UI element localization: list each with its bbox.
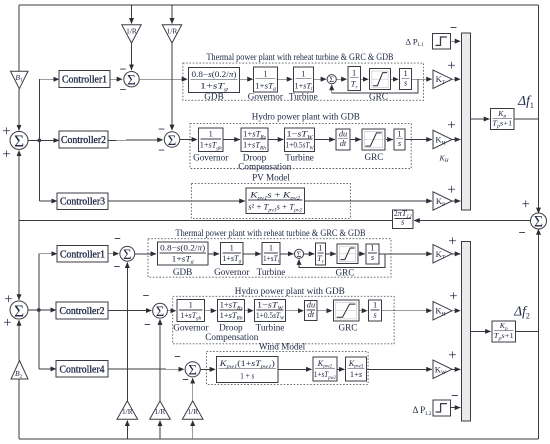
wire: bar 1 output to Kp block [471,118,490,120]
block GRC limiter thermal area 2 [337,244,358,263]
svg-text:−: − [158,143,165,157]
svg-text:+: + [2,123,10,139]
wire: tie summer output into 2piT12/s block [414,220,530,222]
wire: bar 2 output to Kp block (area 2) [471,330,491,332]
wire: tie-line up into S1 bottom [18,151,20,221]
summing junction S2 (ACE area 2) [10,301,28,319]
wire: into Controller4 [39,368,56,370]
svg-text:1: 1 [397,129,401,138]
svg-text:1: 1 [301,69,305,78]
svg-text:Compensation: Compensation [205,332,258,342]
svg-text:GRC: GRC [365,152,384,162]
wire: PV output to gain KP [305,200,432,202]
svg-text:Governor: Governor [193,153,228,163]
dashed box: Thermal power plant area 1 [183,63,424,100]
wire: B1 output into summer S1 [18,89,20,131]
svg-text:+: + [449,288,457,304]
gain KH area 1 [433,130,452,148]
wire: &#916;P L2 into bar 2 [451,407,461,409]
svg-text:Turbine: Turbine [285,153,314,163]
wire: Controller1 to thermal summer (area 2) [108,253,119,255]
svg-text:+: + [447,58,455,74]
wire: turbine to GRC summer [313,78,326,80]
wire: tie-line down into S2 top [18,221,20,300]
svg-text:du: du [339,129,347,138]
summing junction GRC loop area 1 [327,75,336,84]
block Controller3 (area 1) [57,193,108,209]
svg-text:Controller1: Controller1 [62,75,107,86]
dashed box: hydro plant area 1 [190,124,411,169]
svg-text:Σ: Σ [127,73,136,89]
gain KW [433,360,452,378]
svg-text:1: 1 [230,244,234,253]
wire: into Controller2 area 2 [39,309,56,311]
wire: S2 output to junction [28,309,39,311]
svg-text:s: s [371,253,374,262]
svg-text:+: + [4,291,12,307]
block GDB area 2 [157,242,208,265]
block PV transfer function [246,188,305,214]
svg-text:−: − [451,388,458,403]
svg-text:s: s [373,310,376,319]
wire: GDB to governor (area 2) [208,253,219,255]
wire: S1 output to junction [28,139,39,141]
droop gain 1/R (area 2 hydro), pointing up [150,401,171,419]
svg-text:Turbine: Turbine [289,91,318,101]
block GRC limiter hydro area 2 [333,300,359,321]
gain KT area 2 [433,245,452,263]
wire: GDB to governor [240,78,253,80]
outer frame: bottom feedback line (&#916;f2 to B2) [19,438,539,440]
wire: into Controller3 [39,200,57,202]
wire: 1/Tr to limiter [360,78,368,80]
wire: limiter to integrator (area 2) [358,253,365,255]
svg-text:1: 1 [189,301,193,310]
block du/dt area 2 [305,301,318,321]
svg-text:Controller2: Controller2 [61,135,106,146]
svg-text:+: + [448,347,456,363]
summing junction S1 (ACE area 1) [10,131,28,149]
wire: bottom frame into 1/R (thermal 2) [126,421,128,440]
node: ACE2 branch junction [37,308,41,312]
svg-text:+: + [522,196,530,212]
wire: right vertical &#916;f1 down into tie summer [538,5,540,213]
wire: KT into summing bar 1 [452,78,460,80]
summing junction hydro area 2 [153,303,168,318]
svg-text:Hydro power plant with GDB: Hydro power plant with GDB [235,286,345,296]
wire: droop to hydro turbine [268,139,283,141]
wire: Controller3 to PV model [108,200,245,202]
wire: KT into bar 2 [452,253,460,255]
summing junction thermal area 1 [124,72,139,87]
svg-text:GRC: GRC [336,267,355,277]
wire: Controller4 to wind summer [108,368,184,370]
block hydro turbine area 1 [285,128,315,152]
svg-text:0.8−s(0.2/π): 0.8−s(0.2/π) [192,70,237,79]
block governor area 1 thermal [254,67,278,92]
svg-text:1 + s: 1 + s [240,372,254,381]
block Controller2 (area 1) [59,131,108,148]
block Controller1 (area 2) [57,246,108,263]
gain KH area 2 [433,302,452,320]
svg-text:Governor: Governor [173,323,208,333]
svg-text:GDB: GDB [204,91,223,101]
wire: into Controller1 area 2 [39,253,57,255]
wire: summer to GDB block [140,78,188,80]
wire: droop to turbine (hydro 2) [245,310,254,312]
svg-text:Controller2: Controller2 [60,306,105,317]
wire: Controller2 to hydro summer (area 2) [108,310,151,312]
wire: integrator to gain KT (area 2) [379,253,432,255]
svg-text:−: − [144,317,151,331]
wire: integrator output to gain KT [412,78,432,80]
summing bar area 2 [462,242,471,422]
gain KP area 1 [433,192,452,210]
wire: GRC feedback loop area 1 [332,79,418,93]
wire: wind block1 to block2 [278,368,311,370]
svg-text:1: 1 [263,69,267,78]
svg-text:Compensation: Compensation [238,162,291,172]
block 1/Tr area 2 [316,243,326,265]
wire: GRC feedback loop area 2 [299,254,385,268]
wire: left edge down to B1 [18,5,20,71]
svg-text:1/R: 1/R [187,407,198,416]
wire: Controller2 to hydro summer [108,139,163,142]
svg-text:Σ: Σ [329,75,334,84]
svg-text:−: − [174,349,181,363]
wire: 1/R output into thermal summer [131,43,133,70]
svg-text:Turbine: Turbine [257,267,286,277]
wire: KP into bar 1 [452,200,460,202]
summing junction hydro area 1 [164,132,179,147]
wire: bottom frame into 1/R (wind) [192,421,194,440]
summing junction GRC loop area 2 [294,249,303,258]
wire: KH into bar 1 [452,139,460,141]
wire: governor to turbine (area 2) [243,253,261,255]
block GDB area 1 transfer function [189,68,240,93]
wire: integrator to gain KH [405,139,432,141]
wire: summer to GDB (area 2) [135,253,156,255]
block GRC limiter hydro area 1 [362,129,385,150]
block tie line 2*pi*T12/s [392,210,413,229]
block wind transfer 2 [313,357,337,381]
svg-text:1/R: 1/R [122,407,133,416]
svg-text:Σ: Σ [14,301,24,320]
wire: turbine to du/dt (hydro 2) [286,310,304,312]
block governor thermal area 2 [220,243,243,265]
wire: turbine to du/dt [315,139,335,141]
svg-text:1: 1 [373,301,377,310]
node: ACE1 branch junction [37,139,41,143]
summing junction wind [185,362,200,377]
wire: Kp output to right edge (area 2) [516,330,539,332]
block du/dt area 1 [336,129,350,150]
wire: &#916;P L1 into bar 1 [451,40,461,42]
svg-text:s: s [398,139,401,148]
svg-text:+: + [447,117,455,133]
svg-text:−: − [158,122,165,136]
svg-text:PV Model: PV Model [252,173,290,183]
block power system Kp/(Tps+1) area 1 [491,109,515,130]
svg-text:−: − [120,62,127,76]
wire: governor to droop compensation [223,139,240,141]
step load disturbance block &#916;P L1 [433,33,451,49]
svg-text:Droop: Droop [219,323,243,333]
svg-text:Governor: Governor [214,267,249,277]
wire: junction up/down to controller rows (area 1) [38,79,40,201]
svg-text:−: − [450,21,457,35]
block power system Kp/(Tps+1) area 2 [492,321,516,342]
svg-text:Hydro power plant with GDB: Hydro power plant with GDB [252,112,360,122]
svg-text:GDB: GDB [173,267,192,277]
wire: 1/R output into hydro summer [171,43,173,130]
svg-text:1: 1 [269,244,273,253]
svg-text:Thermal power plant with rehea: Thermal power plant with reheat turbine … [207,52,394,62]
wire: bottom frame up into B2 [18,379,20,439]
block hydro governor area 1 [198,128,223,152]
svg-text:1/R: 1/R [155,407,166,416]
svg-text:Σ: Σ [168,133,177,149]
wire: right vertical &#916;f2 up into tie summer [538,229,540,439]
svg-text:Thermal power plant with rehea: Thermal power plant with reheat turbine … [176,228,366,238]
wire: bottom frame into 1/R (hydro 2) [159,421,161,440]
svg-text:1: 1 [370,244,374,253]
svg-text:Σ: Σ [156,304,164,320]
wire: KH into bar 2 [452,310,460,312]
summing junction thermal area 2 [120,246,135,261]
wire: into Controller2 [39,139,59,141]
summing bar area 1 [462,33,471,210]
wire: Kp output to right edge [514,118,539,120]
block turbine area 1 thermal [294,67,314,92]
svg-text:+: + [2,146,10,162]
droop gain 1/R (area 1 thermal), pointing down [122,25,141,43]
svg-text:Σ: Σ [14,132,24,151]
droop gain 1/R (area 2 thermal), pointing up [117,401,138,419]
wire: B2 output up into S2 bottom [18,320,20,360]
wire: wind block2 to block3 [337,368,344,370]
summing junction tie-line [531,213,547,229]
svg-text:1/R: 1/R [167,26,178,35]
wire: tie line power to left edge [19,220,392,222]
block wind transfer 1 [216,356,278,382]
wire: 1/R up into thermal summer (area 2) [126,262,128,401]
svg-text:−: − [114,231,121,245]
svg-text:dt: dt [308,310,315,319]
block GRC rate limiter area 1 thermal [370,69,391,90]
svg-text:Controller3: Controller3 [60,197,105,208]
gain block B2 (frequency bias, area 2) [11,361,28,380]
wire: 1/Tr to limiter (area 2) [326,253,336,255]
wire: junction vertical (area 2) [38,254,40,369]
block turbine thermal area 2 [262,243,280,265]
wire: limiter to integrator (hydro 2) [359,310,368,312]
gain KT area 1 [433,70,452,88]
svg-text:Turbine: Turbine [256,323,285,333]
svg-text:1: 1 [209,130,213,139]
wire: KW into bar 2 [452,368,460,370]
wire: turbine to GRC summer (area 2) [280,253,294,255]
svg-text:−: − [143,288,150,302]
svg-text:s: s [401,218,404,227]
block Controller4 (area 2) [56,361,108,378]
wire: wind output to gain KW [366,368,431,370]
svg-text:1+s: 1+s [350,370,362,379]
block integrator 1/s hydro area 2 [369,300,382,321]
svg-text:−: − [182,372,189,386]
block 1/Tr area 1 [348,67,361,91]
svg-text:Controller4: Controller4 [60,365,106,376]
svg-text:GRC: GRC [369,91,388,101]
block droop compensation area 1 [241,128,268,152]
svg-text:0.8−s(0.2/π): 0.8−s(0.2/π) [160,244,205,253]
block wind transfer 3 [346,357,367,381]
wire: governor to droop (area 2) [204,310,216,312]
svg-text:−: − [518,226,525,240]
svg-text:−: − [114,259,121,273]
wire: into Controller1 [39,78,59,80]
wire: limiter to integrator [390,78,398,80]
wire: 1/R up into hydro summer (area 2) [159,319,161,401]
wire: governor to turbine [277,78,293,80]
outer frame: top feedback line (&#916;f1 to B1) [19,4,539,6]
step load disturbance block &#916;P L2 [433,400,451,416]
droop gain 1/R (wind), pointing up [182,401,203,419]
wire: top frame into 1/R [131,5,133,24]
wire: limiter to integrator (hydro 1) [386,139,393,141]
wire: GRC summer to 1/Tr [336,78,347,80]
svg-text:Wind Model: Wind Model [259,342,306,352]
block integrator 1/s hydro area 1 [394,129,405,150]
svg-text:Σ: Σ [188,363,197,379]
svg-text:du: du [307,301,315,310]
block integrator 1/s area 1 thermal [400,69,412,90]
block hydro governor area 2 [177,300,204,322]
svg-text:s: s [404,79,407,88]
droop gain 1/R (area 1 hydro), pointing down [162,25,181,43]
svg-text:+: + [448,233,456,249]
wire: integrator to KH (area 2) [382,310,432,312]
svg-text:Σ: Σ [297,250,302,259]
svg-text:+: + [447,182,455,198]
svg-text:1/R: 1/R [126,26,137,35]
wire: du/dt to limiter (hydro 2) [317,310,332,312]
svg-text:+: + [3,315,11,331]
svg-text:1: 1 [318,244,322,253]
wire: Controller1 to thermal summer [110,78,122,80]
wire: hydro summer to governor [180,139,197,141]
svg-text:Σ: Σ [123,247,131,263]
wire: wind summer to first wind block [200,368,215,370]
block Controller2 (area 2) [56,302,108,319]
block integrator 1/s thermal area 2 [366,244,379,264]
wire: summer to 1/Tr (area 2) [303,253,314,255]
svg-text:−: − [120,82,127,96]
svg-text:1: 1 [352,68,356,77]
block droop compensation area 2 [218,300,245,322]
wire: 1/R up into wind summer [192,378,194,401]
dashed box: thermal plant area 2 [148,239,391,278]
wire: hydro summer to governor (area 2) [167,310,176,312]
svg-text:Governor: Governor [248,91,283,101]
gain block B1 (frequency bias, area 1) [11,71,29,89]
block hydro turbine area 2 [255,300,286,322]
dashed box: hydro plant area 2 [173,296,394,344]
wire: du/dt to GRC limiter [350,139,361,141]
block Controller1 (area 1) [59,71,110,88]
dashed box: wind model [207,352,369,385]
dashed box: PV model [191,183,350,218]
svg-text:dt: dt [340,139,347,148]
wire: top frame into 1/R (hydro) [171,5,173,24]
svg-text:1: 1 [404,69,408,78]
svg-text:Σ: Σ [534,214,543,231]
svg-text:Controller1: Controller1 [60,249,105,260]
svg-text:GRC: GRC [339,323,358,333]
